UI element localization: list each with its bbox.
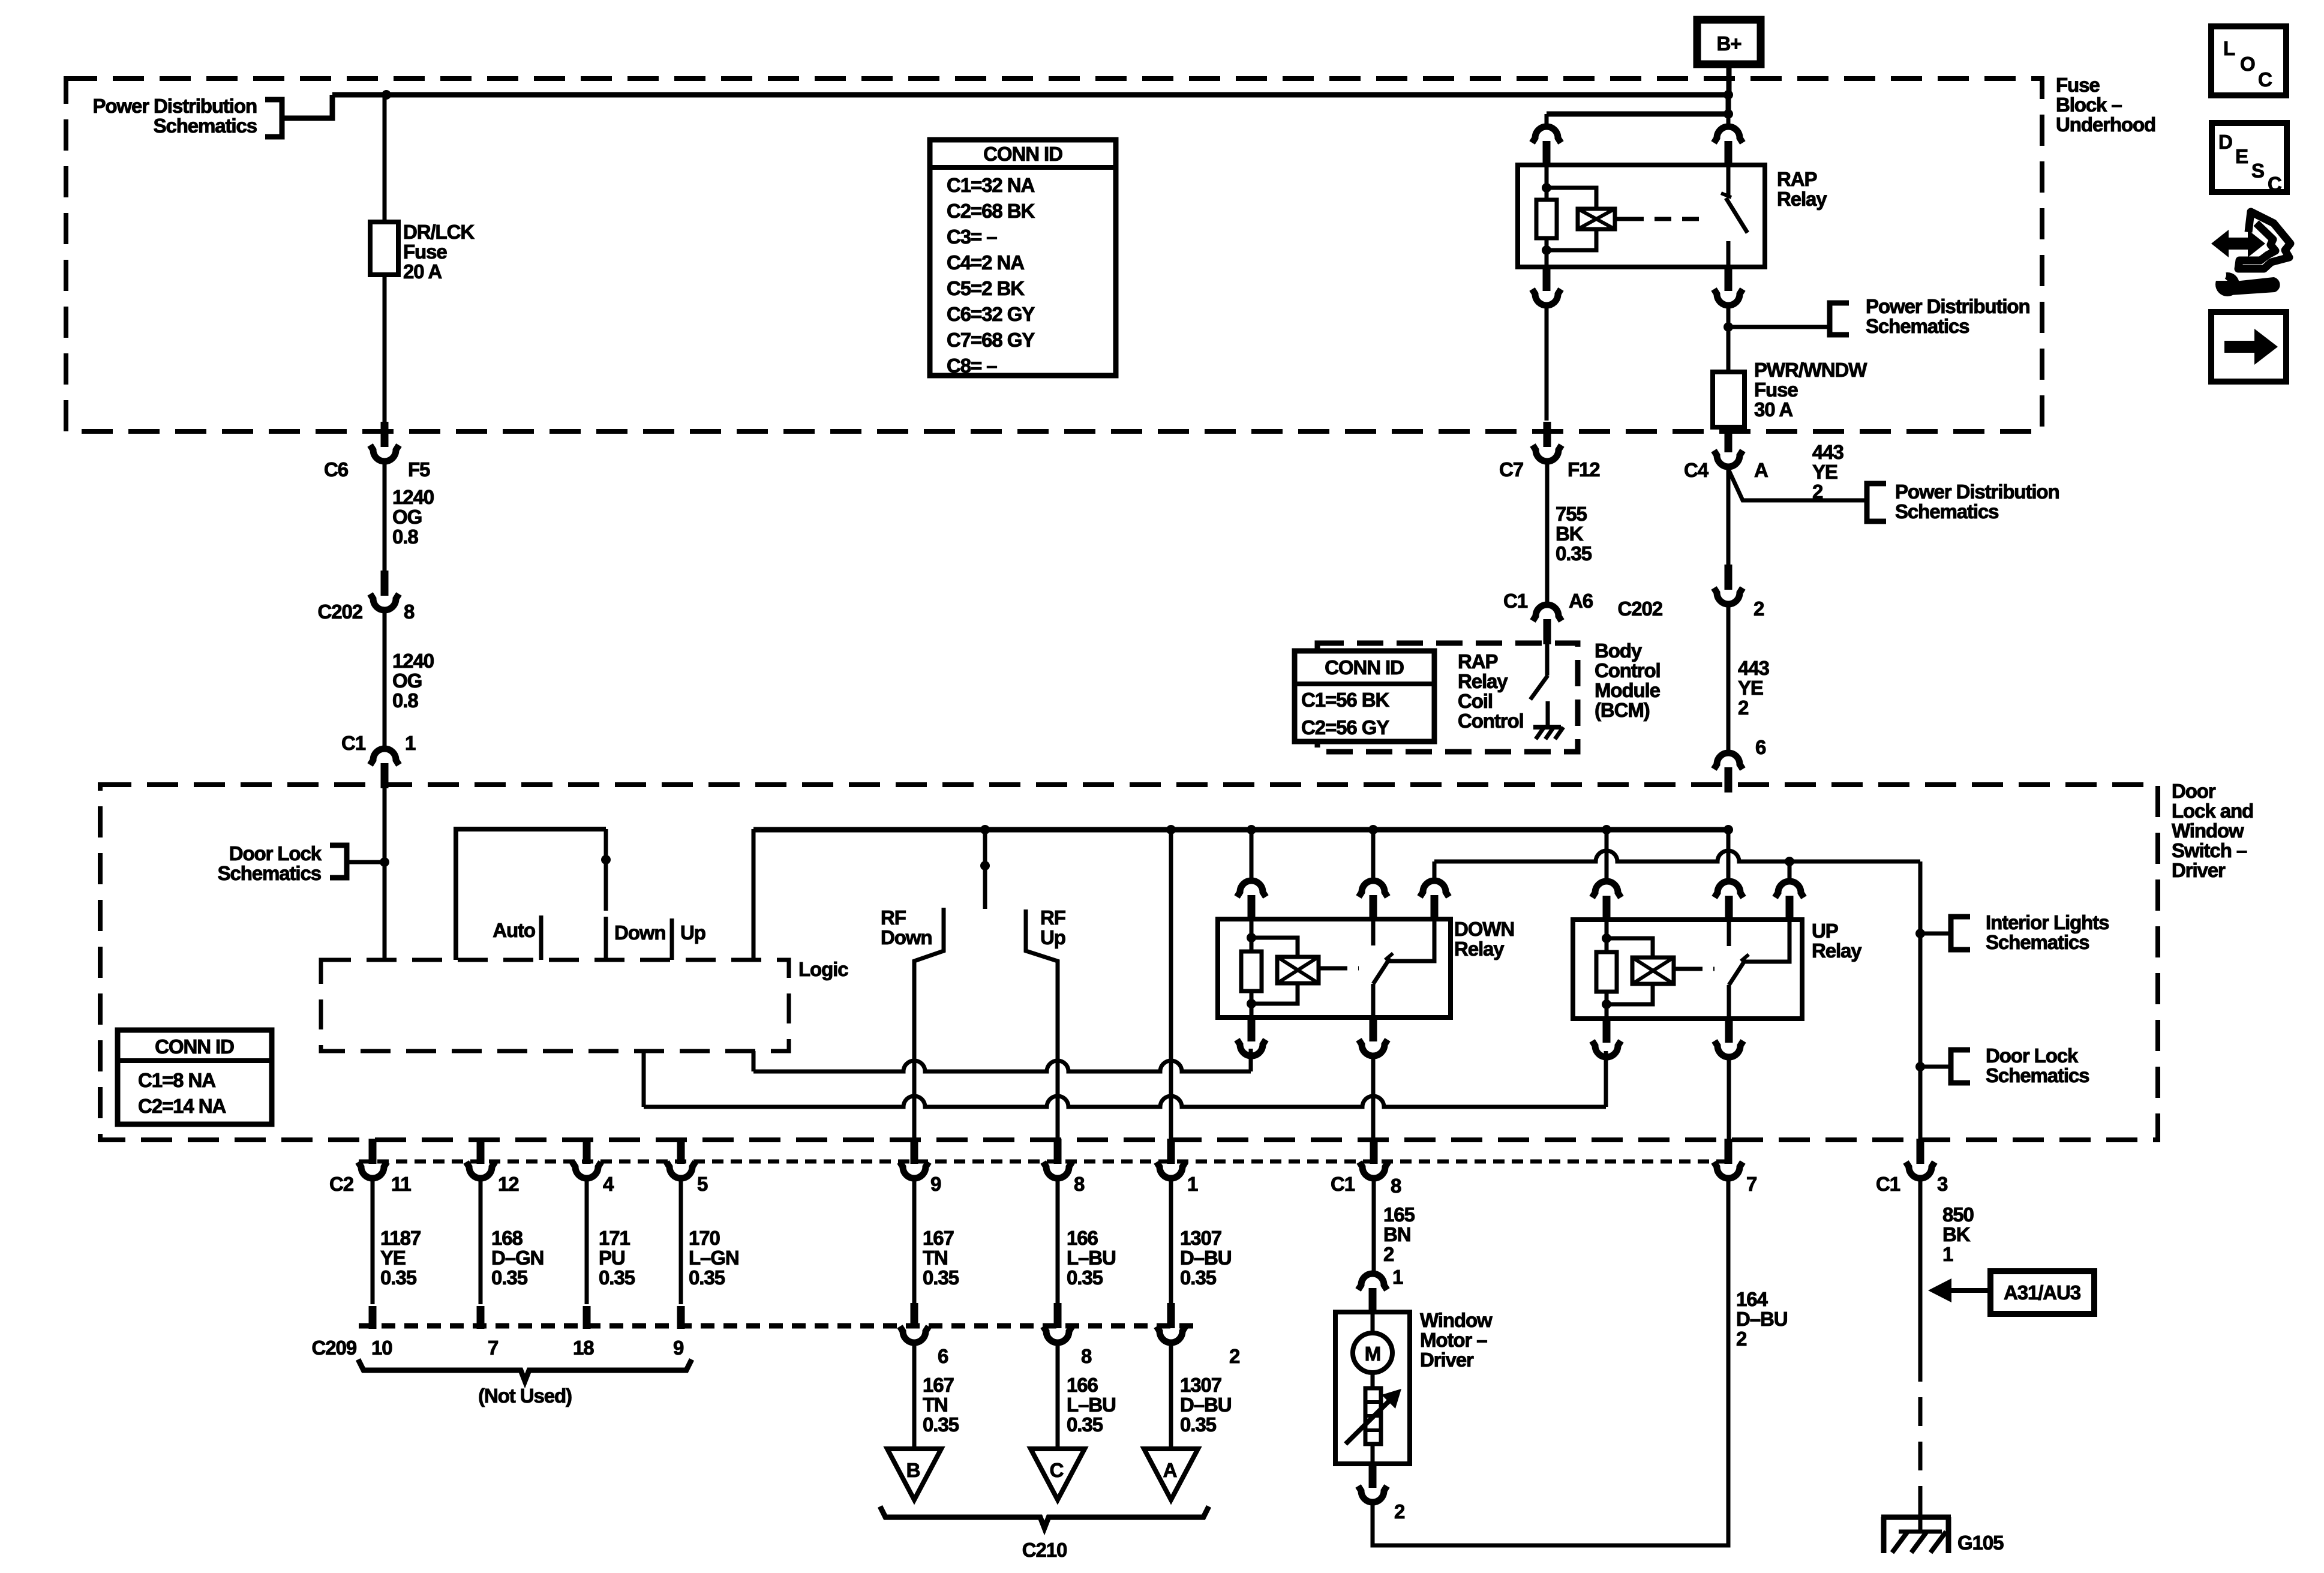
wire 443 YE lower (1727, 604, 1731, 754)
svg-text:Lock and: Lock and (2172, 800, 2253, 822)
node bus junction x=2881 (1724, 825, 1733, 834)
svg-text:Relay: Relay (1458, 670, 1508, 692)
svg-text:D: D (2218, 131, 2232, 153)
wire auto/down feed (456, 829, 606, 960)
wire RF common (983, 830, 987, 909)
resistor UP coil (1596, 952, 1617, 992)
svg-text:B+: B+ (1717, 32, 1742, 55)
connector C2 pin 12 (466, 1139, 495, 1178)
brace C210 (880, 1506, 1209, 1528)
connector DOWN coil top (1237, 881, 1266, 920)
connector C1 pin 1 (370, 749, 399, 788)
svg-text:0.35: 0.35 (491, 1266, 528, 1289)
wire not used x=801 (479, 1177, 483, 1304)
svg-text:C6: C6 (324, 458, 349, 481)
bracket power distribution right top (1830, 303, 1849, 335)
wire up switch (752, 829, 756, 960)
wire to PWR/WNDW fuse (1727, 327, 1731, 372)
wire logic out 1 up (1249, 1049, 1253, 1071)
svg-text:Relay: Relay (1812, 939, 1862, 962)
connector row C2/C1 fine dotted line (359, 1160, 1725, 1164)
svg-text:166: 166 (1067, 1374, 1098, 1396)
svg-text:Door Lock: Door Lock (1986, 1044, 2079, 1067)
wire logic out 2 up (1604, 1051, 1608, 1107)
icon DESC box (2212, 123, 2287, 192)
svg-text:Control: Control (1458, 710, 1524, 732)
svg-text:Driver: Driver (2172, 859, 2226, 881)
svg-text:3: 3 (1937, 1173, 1948, 1195)
bracket interior lights (1951, 917, 1970, 950)
wire step to bracket (283, 95, 332, 118)
wire main bus 443 feed (753, 827, 1728, 833)
svg-text:1307: 1307 (1180, 1374, 1221, 1396)
wire DOWN fixed contact (1371, 919, 1376, 945)
svg-text:164: 164 (1736, 1288, 1768, 1310)
svg-text:DOWN: DOWN (1454, 918, 1514, 940)
blade tick UP (1741, 954, 1749, 961)
wire UP NC contact (1745, 920, 1789, 962)
brace (not used) (358, 1359, 692, 1381)
connector UP coil top (1592, 881, 1621, 921)
svg-text:165: 165 (1383, 1203, 1415, 1226)
svg-text:Fuse: Fuse (2056, 74, 2100, 96)
connector RAP coil 86 (1532, 127, 1561, 166)
wire coil stub (1615, 217, 1627, 221)
svg-text:Relay: Relay (1777, 188, 1827, 210)
table CONN ID (BCM) (1295, 651, 1434, 742)
svg-text:Fuse: Fuse (403, 241, 447, 263)
wire DOWN common out (1371, 984, 1376, 1017)
svg-text:(BCM): (BCM) (1595, 699, 1650, 721)
svg-text:B: B (906, 1459, 920, 1481)
fuse DR/LCK 20A (370, 222, 398, 275)
svg-text:755: 755 (1556, 503, 1587, 525)
fuse PWR/WNDW 30A (1713, 372, 1744, 427)
svg-text:9: 9 (930, 1173, 941, 1195)
wire bus to UP switch (1727, 830, 1731, 881)
svg-text:Control: Control (1595, 659, 1661, 682)
fuse block underhood dashed box (66, 79, 2042, 431)
svg-text:C4: C4 (1684, 459, 1709, 481)
icon vehicle with double arrow and wrench (2211, 230, 2265, 257)
switch blade DOWN (1373, 958, 1390, 984)
blade tick RAP (1721, 193, 1731, 197)
svg-text:Block –: Block – (2056, 94, 2122, 116)
ground G105 (1918, 1512, 1923, 1533)
svg-text:8: 8 (1391, 1175, 1401, 1197)
svg-text:0.8: 0.8 (392, 689, 418, 712)
connector C210 pin 6 (900, 1303, 929, 1343)
svg-text:A31/AU3: A31/AU3 (2004, 1281, 2081, 1304)
connector UP coil bottom (1592, 1017, 1621, 1057)
table CONN ID (fuse block) (930, 140, 1116, 376)
svg-text:850: 850 (1942, 1203, 1974, 1226)
svg-text:Schematics: Schematics (154, 115, 257, 137)
switch RAP relay coil control (in BCM) (1545, 640, 1550, 676)
connector C202 pin 8 (370, 571, 399, 610)
wire RAP coil out (1545, 250, 1549, 267)
wire return to UP NC pin (1788, 861, 1792, 882)
svg-text:Motor –: Motor – (1420, 1329, 1487, 1351)
svg-text:D–BU: D–BU (1180, 1247, 1231, 1269)
wire relay return net (1434, 851, 1920, 861)
svg-text:L–GN: L–GN (689, 1247, 739, 1269)
wire (1545, 188, 1549, 200)
svg-text:Schematics: Schematics (1986, 931, 2089, 953)
svg-text:G105: G105 (1957, 1532, 2004, 1554)
svg-text:0.35: 0.35 (1067, 1413, 1103, 1436)
node junction feed/DRLCK (382, 90, 391, 100)
motor symbol M (1353, 1333, 1392, 1373)
svg-text:UP: UP (1812, 920, 1838, 942)
svg-text:Door: Door (2172, 780, 2216, 802)
wire to door lock bracket (346, 860, 385, 864)
node splice RF (980, 861, 990, 870)
connector UP switch bottom (1715, 1017, 1743, 1057)
svg-text:443: 443 (1812, 441, 1844, 463)
svg-text:1: 1 (1187, 1173, 1198, 1195)
svg-text:YE: YE (1738, 677, 1763, 699)
relay DOWN (1218, 919, 1451, 1017)
svg-text:443: 443 (1738, 657, 1770, 679)
logic box (dashed) (321, 960, 789, 1051)
connector C2 pin 1 (1157, 1139, 1185, 1178)
B+ battery feed box (1697, 20, 1761, 64)
wire RAP switch out (1727, 241, 1731, 267)
wire not used x=621 (371, 1177, 375, 1304)
svg-text:7: 7 (488, 1337, 498, 1359)
wire logic out 2 horizontal (644, 1096, 1606, 1107)
wire to C210 x=1952 (1169, 1177, 1173, 1304)
svg-text:Power Distribution: Power Distribution (1866, 295, 2030, 317)
svg-text:C1: C1 (1503, 590, 1528, 612)
svg-text:L–BU: L–BU (1067, 1247, 1116, 1269)
connector motor pin 1 (1358, 1274, 1387, 1313)
wire bus to UP coil (1605, 830, 1609, 881)
wire C210 to triangle x=1524 (912, 1343, 917, 1449)
node UP coil top (1602, 933, 1611, 943)
svg-text:C7: C7 (1499, 458, 1523, 481)
wire RF down contact to C2-9 (914, 908, 944, 1140)
wire DOWN common to C1-8 (1371, 1056, 1376, 1140)
svg-text:Auto: Auto (493, 919, 535, 941)
connector C209 pin x=978 (583, 1306, 591, 1329)
connector DOWN NC top (1420, 881, 1449, 920)
svg-text:BN: BN (1383, 1223, 1410, 1245)
coil symbol RAP (box-X) (1578, 209, 1615, 229)
relay RAP (1518, 165, 1765, 267)
svg-text:0.35: 0.35 (923, 1266, 959, 1289)
bracket power distribution right bottom (1867, 484, 1886, 521)
svg-text:Up: Up (1040, 926, 1065, 948)
node junction door lock branch (380, 857, 389, 867)
connector C4 pin A (1714, 427, 1743, 467)
svg-text:YE: YE (380, 1247, 406, 1269)
connector row C209/C210 dashed line (359, 1323, 1197, 1329)
svg-text:167: 167 (923, 1227, 954, 1249)
svg-text:1240: 1240 (392, 650, 434, 672)
svg-text:0.35: 0.35 (599, 1266, 635, 1289)
wire RAP coil link bottom (1547, 229, 1596, 250)
svg-text:PU: PU (599, 1247, 625, 1269)
node junction RAP branch (1724, 109, 1733, 119)
svg-text:RF: RF (1040, 906, 1065, 929)
wire down switch upper (604, 829, 608, 911)
svg-text:7: 7 (1746, 1173, 1756, 1195)
svg-text:Up: Up (680, 921, 705, 944)
node DOWN coil top (1247, 933, 1256, 942)
svg-text:YE: YE (1812, 461, 1837, 483)
node junction interior lights (1915, 929, 1925, 938)
svg-text:2: 2 (1229, 1345, 1240, 1367)
svg-text:C202: C202 (318, 601, 363, 623)
connector C2 pin 5 (666, 1139, 695, 1178)
svg-text:C202: C202 (1618, 598, 1663, 620)
svg-text:BK: BK (1942, 1223, 1971, 1245)
svg-text:OG: OG (392, 670, 422, 692)
svg-text:L: L (2223, 37, 2235, 59)
svg-text:C1: C1 (1331, 1173, 1355, 1195)
wire bus to DOWN switch (1371, 830, 1376, 881)
wire B+ stem (1727, 64, 1732, 95)
svg-text:0.35: 0.35 (689, 1266, 725, 1289)
svg-text:TN: TN (923, 1394, 948, 1416)
svg-text:C: C (2268, 173, 2281, 195)
node triangle B (887, 1449, 941, 1500)
bracket door lock right (1951, 1050, 1970, 1083)
svg-text:A: A (1163, 1459, 1177, 1481)
svg-text:10: 10 (371, 1337, 392, 1359)
connector C1 pin 3 (1906, 1139, 1935, 1178)
svg-text:BK: BK (1556, 523, 1584, 545)
svg-text:A: A (1754, 459, 1768, 481)
connector C1 pin 7 (1714, 1139, 1743, 1178)
switch blade RAP (1726, 198, 1747, 233)
svg-text:Window: Window (1420, 1309, 1493, 1331)
node RAP coil top (1542, 183, 1551, 193)
svg-text:C1=8 NA: C1=8 NA (138, 1069, 215, 1091)
svg-text:8: 8 (1074, 1173, 1085, 1195)
wire bus to DOWN coil (1250, 830, 1254, 881)
svg-text:Relay: Relay (1454, 938, 1505, 960)
svg-text:C: C (2258, 68, 2272, 91)
switch blade BCM (1530, 676, 1548, 700)
resistor variable (thermal limiter) (1365, 1388, 1381, 1444)
switch blade UP (1729, 959, 1746, 985)
svg-text:C2=14 NA: C2=14 NA (138, 1095, 226, 1117)
svg-text:(Not Used): (Not Used) (478, 1385, 572, 1407)
connector C2 pin 11 (358, 1139, 387, 1178)
coil symbol DOWN (box-X) (1277, 957, 1319, 983)
connector UP NC top (1775, 881, 1804, 921)
svg-text:RAP: RAP (1777, 168, 1816, 190)
door lock and window switch driver dashed box (100, 785, 2158, 1140)
svg-text:12: 12 (498, 1173, 519, 1195)
table CONN ID (switch) (118, 1030, 272, 1124)
wire to C210 x=1763 (1056, 1177, 1060, 1304)
svg-text:2: 2 (1383, 1243, 1394, 1265)
node junction UP NC (1785, 857, 1794, 866)
svg-text:18: 18 (573, 1337, 594, 1359)
svg-text:Coil: Coil (1458, 690, 1493, 712)
wire motor internal (1371, 1373, 1375, 1388)
resistor RAP coil (1536, 200, 1557, 238)
svg-text:Schematics: Schematics (218, 862, 321, 884)
svg-text:Down: Down (881, 926, 932, 948)
wire to C210 x=1524 (912, 1177, 917, 1304)
wire C1-1 to logic (383, 787, 387, 960)
svg-text:2: 2 (1394, 1500, 1405, 1523)
svg-text:F12: F12 (1568, 458, 1600, 481)
wire down switch lower stub (604, 917, 608, 960)
svg-text:11: 11 (391, 1173, 411, 1195)
module BCM dashed box (1317, 643, 1578, 752)
wire 850 BK (1918, 1177, 1923, 1353)
icon LOC box (2211, 26, 2286, 95)
connector C2 pin 9 (900, 1139, 929, 1178)
bracket door lock schematics (330, 845, 347, 878)
svg-text:C7=68 GY: C7=68 GY (947, 329, 1035, 351)
node triangle A (1144, 1449, 1198, 1500)
wire to power dist bracket (1728, 325, 1828, 329)
svg-text:Switch –: Switch – (2172, 839, 2247, 861)
svg-text:C8= –: C8= – (947, 355, 997, 377)
connector RAP switch 30 (1714, 127, 1743, 166)
svg-text:Window: Window (2172, 819, 2244, 842)
svg-text:C6=32 GY: C6=32 GY (947, 303, 1035, 325)
svg-text:Interior Lights: Interior Lights (1986, 911, 2109, 933)
mech link UP (dashed) (1686, 967, 1715, 971)
wire motor return to C1-7 (1373, 1177, 1728, 1545)
svg-text:0.35: 0.35 (1180, 1266, 1217, 1289)
wire to DR/LCK fuse (383, 95, 387, 222)
svg-text:20 A: 20 A (403, 260, 442, 283)
connector C6 pin F5 (370, 422, 399, 461)
wire 1240 OG upper (383, 461, 387, 572)
svg-text:DR/LCK: DR/LCK (403, 221, 475, 243)
svg-text:Power Distribution: Power Distribution (1895, 481, 2059, 503)
svg-text:0.8: 0.8 (392, 526, 418, 548)
svg-text:RF: RF (881, 906, 906, 929)
node bus junction x=2678 (1602, 825, 1611, 834)
svg-text:O: O (2240, 53, 2255, 75)
wire dashed to ground (1918, 1353, 1923, 1512)
svg-text:8: 8 (404, 601, 415, 623)
wire C210 to triangle x=1952 (1169, 1343, 1173, 1449)
wire RAP coil top (1545, 165, 1549, 188)
svg-text:168: 168 (491, 1227, 523, 1249)
svg-text:Underhood: Underhood (2056, 113, 2155, 136)
svg-text:0.35: 0.35 (1556, 542, 1592, 565)
connector C7 pin F12 (1533, 422, 1562, 461)
node DOWN coil bottom (1247, 999, 1256, 1008)
svg-text:Body: Body (1595, 640, 1643, 662)
icon arrow box (2211, 312, 2286, 382)
wire logic out 1 (752, 1051, 756, 1071)
svg-text:Fuse: Fuse (1754, 379, 1798, 401)
svg-text:OG: OG (392, 506, 422, 528)
connector C209 pin x=621 (369, 1306, 377, 1329)
svg-text:Schematics: Schematics (1895, 500, 1998, 523)
connector C210 pin 2 (1157, 1303, 1185, 1343)
svg-text:6: 6 (1755, 736, 1766, 758)
connector RAP 85 out (1532, 266, 1561, 305)
svg-text:0.35: 0.35 (1067, 1266, 1103, 1289)
svg-text:A6: A6 (1569, 590, 1593, 612)
node bus junction x=1642 (980, 825, 990, 834)
svg-text:C1: C1 (1876, 1173, 1900, 1195)
bracket power distribution left (265, 100, 282, 137)
node bus junction x=2289 (1368, 825, 1378, 834)
svg-text:D–BU: D–BU (1180, 1394, 1231, 1416)
svg-text:CONN ID: CONN ID (1325, 656, 1404, 679)
connector DOWN coil bottom (1237, 1016, 1266, 1056)
svg-text:TN: TN (923, 1247, 948, 1269)
svg-text:C210: C210 (1022, 1539, 1067, 1561)
mech link DOWN (dashed) (1331, 966, 1359, 971)
wire not used x=978 (585, 1177, 589, 1304)
wire to BCM ground (1546, 701, 1550, 727)
svg-text:C1=32 NA: C1=32 NA (947, 174, 1034, 196)
wire to interior lights bracket (1920, 932, 1948, 936)
wire RF up contact to C2-8 (1026, 909, 1058, 1140)
wire into RAP coil connector (1545, 114, 1549, 128)
node splice down (601, 855, 611, 864)
wire RAP to C7 (1545, 305, 1549, 421)
svg-text:1: 1 (1942, 1243, 1953, 1265)
wire DR/LCK fuse to C6 (383, 275, 387, 423)
svg-text:C209: C209 (312, 1337, 357, 1359)
node junction feed/B+ (1724, 90, 1733, 100)
svg-text:Module: Module (1595, 679, 1661, 701)
svg-text:Driver: Driver (1420, 1349, 1474, 1371)
arrow variable resistor (1346, 1395, 1395, 1444)
svg-text:1307: 1307 (1180, 1227, 1221, 1249)
svg-text:166: 166 (1067, 1227, 1098, 1249)
wire logic out 2 (642, 1051, 646, 1107)
connector C1 pin A6 (1533, 605, 1562, 644)
arrow line A31/AU3 (1945, 1288, 1990, 1293)
coil symbol UP (box-X) (1632, 957, 1674, 984)
connector pin 6 (1714, 753, 1743, 792)
svg-text:C2: C2 (329, 1173, 354, 1195)
wire to door lock bracket right (1920, 1065, 1948, 1069)
svg-text:PWR/WNDW: PWR/WNDW (1754, 359, 1867, 381)
connector C202 pin 2 (1714, 565, 1743, 604)
svg-text:C1=56 BK: C1=56 BK (1301, 689, 1389, 711)
switch contact down/up bar (670, 918, 674, 960)
node RAP coil bottom (1542, 245, 1551, 255)
svg-text:170: 170 (689, 1227, 720, 1249)
svg-text:30 A: 30 A (1754, 398, 1792, 421)
resistor DOWN coil (1241, 951, 1262, 991)
svg-text:C3= –: C3= – (947, 226, 997, 248)
wire RAP coil feed (1547, 112, 1728, 117)
wire 1240 OG lower (383, 610, 387, 746)
svg-text:C2=68 BK: C2=68 BK (947, 200, 1035, 222)
wire C1-8 to motor (1372, 1177, 1376, 1274)
svg-text:0.35: 0.35 (1180, 1413, 1217, 1436)
node bus junction x=1952 (1166, 825, 1176, 834)
node junction power dist branch (1724, 322, 1733, 332)
svg-text:2: 2 (1753, 598, 1764, 620)
wire UP fixed contact (1727, 920, 1731, 946)
svg-text:Down: Down (614, 921, 665, 944)
svg-text:L–BU: L–BU (1067, 1394, 1116, 1416)
connector RAP 87 out (1714, 266, 1743, 305)
node bus junction x=2086 (1247, 825, 1256, 834)
connector DOWN switch bottom (1359, 1016, 1388, 1056)
